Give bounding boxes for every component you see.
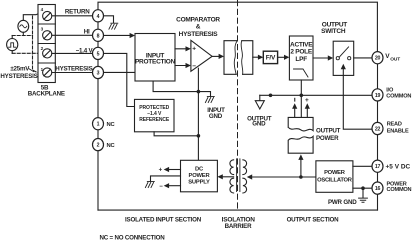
svg-text:OUT: OUT [390,56,400,62]
node analog ground vertical [197,68,199,160]
svg-text:HI: HI [84,29,90,36]
svg-text:BACKPLANE: BACKPLANE [28,90,65,97]
wire I/O common rail [260,94,372,96]
svg-text:COMMON: COMMON [386,94,411,100]
wire screw4 to pin4 RETURN [52,15,92,17]
svg-text:SWITCH: SWITCH [321,28,346,35]
svg-text:ACTIVE: ACTIVE [290,41,313,48]
svg-text:ENABLE: ENABLE [387,129,409,135]
F/V converter U4 [263,51,277,63]
wire transformer primary (arrow into T1) [252,176,316,178]
wire pin4 to chassis ground [104,16,114,23]
wire screw2 to pin5 -1.4V [52,52,92,54]
pin 19 [372,89,383,101]
wire pulse top stem [11,36,13,39]
svg-text:OSCILLATOR: OSCILLATOR [317,177,353,183]
ground chassis (supply) [145,182,154,188]
wire top rail pin4 to pin20 [98,2,377,51]
wire screw3 to pin8 HI [52,34,92,36]
svg-text:22: 22 [375,127,381,133]
wire pin8 to input protection (arrow) [104,34,130,36]
wire +V arrow out [169,169,181,171]
wire pin5 to reference box [104,53,135,106]
wire screw1 to pin3 HYSTERESIS [52,72,92,74]
svg-text:5: 5 [97,51,100,57]
svg-text:POWER: POWER [324,170,346,176]
wire transformer secondary to supply (arrow) [223,176,234,178]
svg-text:OUTPUT: OUTPUT [316,127,341,134]
pin 17 [372,160,383,172]
pin 1 NC [93,118,104,130]
svg-text:BARRIER: BARRIER [225,223,253,230]
svg-text:POWER: POWER [316,135,339,142]
svg-text:HYSTERESIS: HYSTERESIS [0,73,37,80]
svg-text:4: 4 [97,14,100,20]
wire dashed vertical to terminal 1 [33,16,42,75]
ground chassis (input gnd) [205,97,214,103]
wire pulse bottom stem [11,51,13,54]
ground chassis (input return) [109,23,118,29]
transformer T1 [230,159,247,193]
svg-text:±25mV: ±25mV [10,66,30,73]
wire to pwr gnd [362,188,364,197]
output switch S1 [333,41,354,75]
pin 8 [93,29,104,41]
wire isolation to F/V (arrow) [253,56,258,58]
power oscillator U6 [316,161,353,193]
node rail junction dots [269,94,273,98]
svg-text:&: & [196,23,201,30]
screw terminal 1 [43,68,52,77]
wire dashed pulse bottom to screw 2 [12,52,42,54]
wire output power minus to rail (arrow up) [294,108,296,117]
svg-text:1: 1 [97,122,100,128]
svg-text:8: 8 [97,33,100,39]
pin 5 [93,47,104,59]
wire bottom boundary [98,209,378,211]
reference U2 protected -1.4V [135,99,175,131]
signal isolation break symbol [224,41,253,75]
svg-text:DC: DC [195,167,204,173]
pin 20 [372,52,383,64]
svg-text:HYSTERESIS: HYSTERESIS [179,31,219,38]
svg-text:16: 16 [375,186,381,192]
svg-text:+: + [305,97,309,104]
svg-text:NC: NC [107,122,116,128]
LPF response symbol [294,69,309,77]
wire read enable to switch (arrow up) [343,69,372,129]
svg-text:2 POLE: 2 POLE [290,49,313,56]
svg-text:+: + [159,168,163,174]
svg-text:POWER: POWER [189,173,211,179]
node junction dots [197,90,201,94]
svg-text:17: 17 [375,164,381,170]
pin 3 [93,66,104,78]
svg-text:NC = NO CONNECTION: NC = NO CONNECTION [100,234,166,241]
pin 2 NC [93,139,104,151]
output gnd symbol [259,95,261,100]
label 25mV hysteresis leader [29,69,34,72]
wire pin3 to input protection [104,71,135,73]
wire supply common to chassis ground [151,176,181,181]
svg-text:OUTPUT SECTION: OUTPUT SECTION [287,217,340,224]
svg-text:NC: NC [107,143,116,149]
svg-text:−1.4 V: −1.4 V [76,48,94,55]
svg-text:F/V: F/V [266,54,276,61]
svg-text:+5 V DC: +5 V DC [386,164,411,171]
active 2 pole LPF U5 [289,36,313,80]
wire transformer to output power (arrow up) [300,160,302,177]
wire switch to pin20 [354,57,372,59]
pin 16 [372,182,383,194]
arrowhead HI into U1 [130,33,135,38]
screw terminal 4 [43,11,52,20]
svg-text:RETURN: RETURN [65,8,90,15]
svg-text:20: 20 [375,56,381,62]
dc power supply U3 [181,160,218,192]
pin 22 [372,122,383,134]
svg-text:PWR GND: PWR GND [328,199,357,206]
svg-text:GND: GND [252,121,266,128]
ground earth PWR GND [359,198,368,202]
svg-text:−: − [159,184,163,190]
wire output power plus to rail (arrow up) [306,108,308,117]
wire dashed common (pulse top to vertical) [12,35,32,37]
node left pin column verticals [97,22,99,210]
wire comparator output arrow [212,55,219,57]
svg-text:PROTECTION: PROTECTION [135,59,176,66]
svg-text:GND: GND [209,113,223,120]
svg-text:+: + [192,46,196,53]
wire U1 outputs to comparator [175,49,186,66]
label minus tick output power [294,98,295,102]
wire U1 bottom to gnd node [153,81,198,92]
output power rectifier block [288,117,313,153]
svg-text:−: − [192,63,196,70]
pin 4 [93,10,104,22]
wire LPF to switch (arrow) [313,57,328,59]
wire LPF bottom to common rail [300,80,302,95]
svg-text:READ: READ [387,122,402,128]
svg-text:SUPPLY: SUPPLY [188,179,210,185]
svg-text:REFERENCE: REFERENCE [139,117,170,123]
wire input gnd branch [198,92,210,97]
wire sine top to screw 4 [23,12,42,20]
screw terminal 2 [43,49,52,58]
svg-text:ISOLATED INPUT SECTION: ISOLATED INPUT SECTION [125,217,202,224]
wire oscillator to +5V pin17 [353,165,372,167]
wire sine bottom stem [22,32,24,35]
wire reference to gnd node [154,132,198,136]
screw terminal 3 [43,31,52,40]
source V1 sine generator [18,20,29,32]
svg-text:2: 2 [97,143,100,149]
source V2 pulse generator [7,39,18,51]
svg-text:3: 3 [97,71,100,77]
wire -V arrow out [169,185,181,187]
svg-text:19: 19 [375,93,381,99]
wire oscillator to power common pin16 [353,187,372,189]
terminal block 5B backplane [38,5,55,83]
op-amp comparator A1 [191,40,212,71]
svg-text:HYSTERESIS: HYSTERESIS [55,66,92,73]
isolation barrier dashed line [237,1,239,211]
wire output power mid to rail [300,95,302,117]
node right pin column verticals [377,64,379,210]
input protection U1 [135,34,175,82]
svg-text:LPF: LPF [295,56,307,63]
svg-text:COMMON: COMMON [387,187,412,193]
wire F/V to LPF (arrow) [278,56,284,58]
